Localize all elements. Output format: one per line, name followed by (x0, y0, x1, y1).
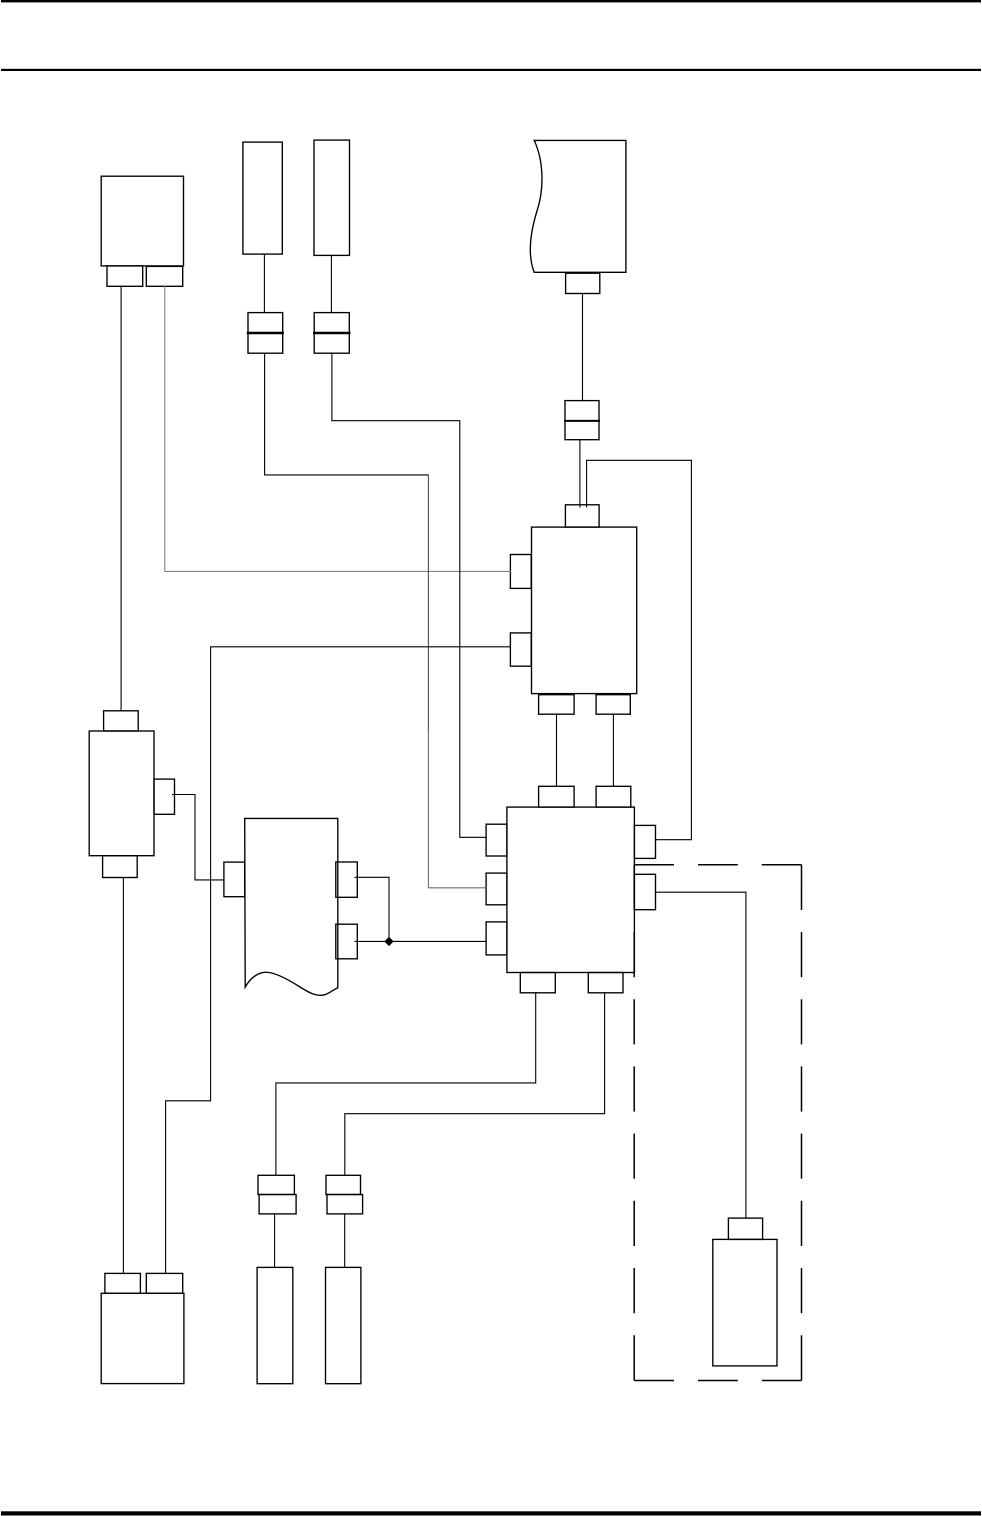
connector: top-left unit pin B (146, 266, 182, 286)
wire: continuation to lower unit left 2 (428, 731, 486, 888)
connector: upper unit left 1 (510, 555, 531, 589)
wire: left-middle right to center break left (173, 795, 224, 880)
connector: lower unit right 1 (634, 825, 655, 858)
connector: upper unit top (565, 505, 599, 527)
wire: center break right 2 through junction to lower unit left 3 (355, 940, 486, 942)
box: tall unit 4 (bottom) (326, 1267, 361, 1383)
connector: top-left unit pin A (107, 266, 143, 286)
connector pair: inline connector 2 (314, 313, 349, 354)
connector pair: inline connector 1 (248, 313, 283, 354)
box: unit bottom-left (101, 1293, 184, 1383)
wire: lower unit right 2 to optional unit top (656, 892, 746, 1218)
box: tall unit 2 (top) (314, 140, 350, 255)
connector: lower unit left 3 (486, 922, 507, 955)
wire: inline connector 4 to tall unit 3 (274, 1214, 276, 1268)
junction: splice point (384, 937, 393, 946)
box: optional unit bottom-right (713, 1239, 777, 1366)
connector: bottom-left pin A (105, 1273, 140, 1293)
wire: inline connector 3 to upper unit top (579, 440, 581, 507)
connector: left-middle bottom (103, 856, 138, 878)
wire: upper unit bottom right to lower unit top right (612, 714, 614, 786)
box: control unit lower (507, 807, 635, 972)
connector: upper unit bottom right (596, 695, 630, 715)
wire: inline connector 2 to lower unit left 1 (332, 353, 486, 837)
wire: lower unit bottom right to inline connector 5 (345, 993, 605, 1176)
wire: lower unit bottom left to inline connector 4 (276, 993, 536, 1176)
wire: inline connector 5 to tall unit 4 (344, 1214, 346, 1268)
box: tall unit 1 (top) (243, 142, 282, 254)
dashed boundary: optional equipment (634, 865, 801, 1381)
connector: lower unit bottom right (588, 973, 623, 993)
connector pair: inline connector 4 (bottom) (258, 1175, 296, 1214)
box: unit left-middle (89, 731, 154, 856)
wire: center break right 1 to junction (355, 877, 389, 941)
connector: lower unit top left (539, 786, 575, 807)
connector: bottom-left pin B (146, 1273, 182, 1293)
wire: top-left pin A to left-middle top (120, 286, 122, 711)
box: harness break top-right (wavy left edge) (530, 140, 625, 272)
box: unit top-left (101, 176, 183, 266)
wire: continuation down to lower unit left 2 (427, 475, 429, 731)
wire: loop upper unit top to lower unit right 1 (587, 460, 692, 839)
connector: lower unit right 2 (634, 874, 655, 909)
connector: center break left (224, 862, 245, 897)
connector pair: inline connector 5 (bottom) (326, 1175, 363, 1214)
connector: lower unit left 2 (486, 873, 507, 905)
box: tall unit 3 (bottom) (257, 1267, 293, 1383)
wire: inline connector 1 to lower unit left 2 (265, 353, 429, 475)
wire: harness break pin to inline connector 3 (582, 294, 584, 401)
wire: upper unit left 2 to bottom-left pin B (166, 647, 511, 1274)
connector: harness break pin (566, 273, 600, 293)
wire: tall unit 1 to inline connector 1 (263, 254, 265, 313)
connector: lower unit top right (596, 786, 631, 807)
connector: left-middle top (104, 711, 139, 731)
header rule top (1, 0, 981, 2)
wire: upper unit bottom left to lower unit top left (556, 714, 558, 786)
connector: optional unit top (728, 1218, 762, 1239)
wire: tall unit 2 to inline connector 2 (330, 255, 332, 312)
box: harness break center (wavy bottom edge) (245, 818, 338, 995)
connector: center break right 1 (336, 862, 358, 897)
connector: lower unit bottom left (520, 973, 555, 993)
connector: left-middle right (154, 779, 175, 814)
header rule lower (1, 69, 981, 71)
connector: upper unit left 2 (510, 633, 531, 666)
connector pair: inline connector 3 (565, 401, 599, 440)
connector: lower unit left 1 (486, 824, 507, 856)
box: control unit upper (532, 527, 637, 694)
wire: top-left pin B to upper unit left 1 (long) (165, 286, 511, 571)
connector: upper unit bottom left (539, 695, 575, 715)
wire: left-middle bottom to bottom-left pin A (122, 878, 124, 1274)
footer rule (1, 1511, 981, 1515)
connector: center break right 2 (336, 924, 358, 959)
